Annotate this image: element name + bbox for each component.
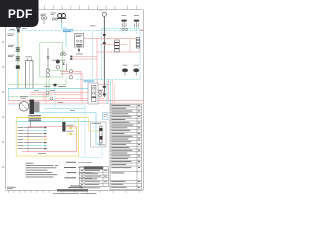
blower package BL-02: [19, 102, 29, 112]
label text left riser: [8, 45, 15, 57]
label above pump row: [52, 59, 66, 62]
wire: cyan horizontals lower: [44, 107, 85, 109]
control valve station in yellow box: [62, 122, 65, 132]
vessel V-02 (gas conditioning): [75, 34, 84, 47]
tower internal line: [28, 61, 30, 89]
wire: long red pair: [8, 100, 143, 102]
wire: dark stub to red pair: [66, 64, 68, 72]
wire: green line horizontal lower: [8, 84, 66, 86]
blower label: [20, 96, 28, 98]
wire: red drop from enclosure to biofilter: [96, 52, 98, 83]
wire: cyan process line vertical left: [16, 27, 18, 88]
red safety enclosure top right: [97, 39, 140, 52]
wire: thick pale cyan riser into skid: [95, 112, 97, 145]
instrument bubble mid band 2: [50, 97, 53, 100]
roof vent 1: [121, 20, 126, 27]
wire: cyan elbow from blower: [62, 22, 67, 47]
label near riser: [90, 25, 96, 28]
small detail box left of table: [103, 113, 109, 120]
wire: cyan header: [16, 121, 91, 123]
wire: red from vessel to flare header: [84, 38, 97, 40]
wire: red riser right: [108, 80, 110, 101]
wire: vent drop 2: [136, 27, 138, 34]
valve on drain: [78, 49, 80, 51]
cyan dashed room boundary right: [76, 29, 140, 80]
skid internal vessel column: [100, 126, 102, 143]
wire: cyan risers right: [106, 80, 108, 105]
wire: green inner line: [48, 69, 66, 71]
wire: red feeder verticals: [43, 93, 45, 101]
wire: stem from blower: [61, 18, 63, 22]
red tick at frame: [141, 30, 143, 31]
exhaust fan 1: [122, 65, 128, 76]
control valve in green box: [47, 57, 50, 59]
vent label 1: [122, 14, 127, 17]
roof vent 2: [134, 20, 139, 27]
wire: red pair mid: [60, 70, 81, 72]
instrument bubble mid band 1: [46, 91, 49, 94]
wire: drain below vessel: [78, 47, 80, 53]
label text beside cluster: [10, 28, 27, 30]
wire: cyan horizontal into long drop: [8, 104, 85, 106]
tower label: [26, 56, 33, 59]
fitting cluster below badge: [16, 27, 21, 32]
title form field labels: [64, 162, 92, 179]
vessel V-02 internals: [76, 35, 83, 37]
wire: yellow line parallel vertical left: [18, 33, 20, 88]
revision table: [80, 167, 109, 189]
red drain line bottom of yellow box: [22, 151, 77, 153]
wire: red risers mid down: [80, 71, 82, 100]
pump P-01 motor bubble: [56, 66, 60, 70]
pump P-01: [56, 60, 60, 64]
wire: battery-limit cyan dash-dot line across sheet: [8, 30, 143, 32]
label text above: [51, 13, 57, 15]
flare label: [99, 9, 104, 12]
wire: yellow branch 2 with valve: [66, 133, 77, 135]
valve on recirculation line: [70, 56, 72, 58]
yellow control panel enclosure: [16, 118, 78, 156]
svg-text:PDF: PDF: [8, 7, 33, 21]
sheet border frame: [6, 10, 144, 191]
tower vessel T-01: [26, 61, 33, 89]
wire: vent drop 1: [123, 27, 125, 34]
signal ladder rows: [18, 127, 47, 149]
instrument cluster right of badge: [41, 17, 47, 20]
scrubber skid box: [91, 122, 107, 147]
cluster label: [41, 14, 47, 16]
wire: cyan left drop: [8, 88, 10, 100]
ruler tick marks bottom edge: [9, 190, 140, 193]
wire: long cyan drop and under-run: [79, 105, 103, 158]
PDF badge: [0, 0, 39, 27]
instrument bubble 2: [46, 73, 50, 77]
instrument bubbles at flare leg: [99, 91, 102, 97]
instrument bubble 1: [46, 69, 50, 73]
wire: red recirculation pair: [72, 56, 97, 58]
wire: upper cyan dashed line right section: [102, 28, 141, 30]
wire: yellow header: [16, 117, 89, 119]
skid bottom fittings: [97, 143, 101, 146]
biofilter box: [88, 83, 98, 104]
wire: red line y98.5: [55, 98, 104, 100]
tower top nozzles: [28, 59, 32, 61]
flame arrestor vessel: [115, 40, 120, 52]
valve stack 2 on left riser: [16, 56, 20, 60]
instrument bubble lower: [69, 76, 72, 79]
valves on flare line: [103, 34, 106, 44]
seal pot vessel right: [136, 38, 139, 49]
flare tip: [102, 12, 106, 16]
wire: yellow elbow into skid: [89, 118, 100, 131]
red inner enclosure: [28, 127, 77, 152]
top-middle instruments: [52, 18, 57, 20]
valve diamond near pump: [62, 63, 65, 65]
wire: cluster stem: [43, 19, 45, 24]
agitator/valve train inside green box: [47, 48, 49, 70]
ruler tick marks top edge: [45, 6, 137, 10]
biofilter internal vessel: [92, 86, 96, 102]
drawing number text above scale bar: [68, 186, 83, 188]
wire: green drop from box: [65, 77, 67, 85]
instruments near vents: [122, 28, 128, 30]
notes legend block: [26, 163, 59, 178]
wire: green verticals below box: [46, 77, 48, 97]
equipment list right column ticks: [138, 105, 140, 188]
equipment list row text: [111, 105, 133, 188]
scattered pipe labels: [34, 86, 103, 111]
wire: red internal line: [100, 44, 127, 46]
label text near signal: [44, 86, 64, 91]
flare stack: [103, 17, 105, 97]
bottom caption text: [53, 193, 97, 194]
label on recirculation lines: [76, 53, 83, 56]
silencer bank under blower: [29, 115, 42, 121]
wire: red out of biofilter: [98, 84, 109, 86]
blower B-01 twin lobes: [57, 14, 66, 19]
signal dashed line with tag: [54, 84, 56, 109]
instrument dumbbell: [60, 52, 66, 56]
wire: cyan riser right of vessel: [92, 31, 94, 80]
vent label 2: [134, 14, 139, 17]
wire: red mid lines: [30, 92, 105, 94]
wire: cyan horizontal y88: [8, 87, 88, 89]
scale bar: [57, 189, 88, 191]
instrument bubble on red line: [69, 70, 72, 73]
valve stack 1 on left riser: [16, 47, 20, 51]
inline filter on left riser: [16, 65, 20, 68]
green equipment enclosure box: [40, 43, 63, 78]
wire: green horizontal y96.8: [8, 96, 49, 98]
wire: yellow riser: [76, 128, 78, 141]
stream label above biofilter: [83, 80, 95, 83]
grid reference letters left margin: [2, 42, 4, 168]
stream label box: [62, 29, 74, 33]
valve on recirculation line 2: [70, 58, 72, 60]
equipment list table right: [110, 104, 141, 189]
wire: dark drop from silencer: [30, 121, 32, 127]
bottom-left strip text: [7, 187, 16, 189]
label text top-left: [8, 34, 15, 36]
wire: yellow branch 1 with valve: [66, 127, 77, 129]
skid label text: [92, 123, 105, 145]
wire: pink risers right: [112, 80, 114, 104]
exhaust fan 2: [133, 65, 139, 76]
valve cluster on flare leg: [103, 86, 106, 95]
